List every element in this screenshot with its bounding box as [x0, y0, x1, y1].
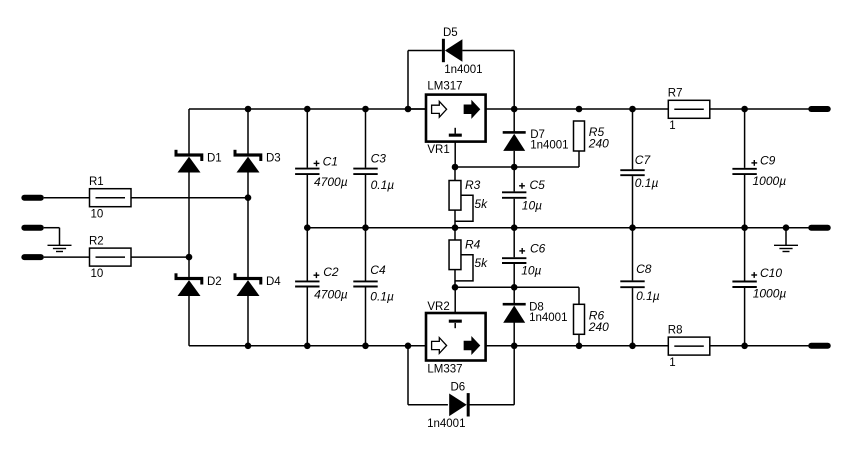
- svg-text:R7: R7: [668, 88, 683, 100]
- svg-text:R4: R4: [465, 238, 481, 252]
- svg-text:D5: D5: [443, 27, 458, 39]
- svg-text:VR2: VR2: [427, 301, 449, 313]
- svg-text:D4: D4: [266, 276, 281, 288]
- svg-text:1n4001: 1n4001: [444, 64, 482, 76]
- svg-text:240: 240: [588, 137, 609, 151]
- svg-text:C4: C4: [370, 263, 386, 277]
- svg-text:LM337: LM337: [427, 364, 462, 376]
- svg-text:0.1µ: 0.1µ: [370, 289, 394, 303]
- svg-text:C7: C7: [635, 153, 652, 167]
- svg-text:C5: C5: [530, 178, 546, 192]
- svg-text:5k: 5k: [474, 197, 488, 211]
- svg-text:0.1µ: 0.1µ: [371, 178, 395, 192]
- svg-text:10µ: 10µ: [522, 198, 542, 212]
- svg-text:D6: D6: [451, 382, 466, 394]
- svg-text:C2: C2: [323, 265, 339, 279]
- svg-text:R8: R8: [668, 325, 683, 337]
- svg-text:R3: R3: [465, 178, 481, 192]
- svg-text:LM317: LM317: [427, 81, 462, 93]
- svg-text:VR1: VR1: [427, 144, 449, 156]
- svg-text:10: 10: [91, 209, 104, 221]
- svg-text:C3: C3: [371, 152, 387, 166]
- svg-text:R2: R2: [89, 236, 104, 248]
- svg-text:C1: C1: [323, 155, 338, 169]
- svg-text:1: 1: [669, 120, 675, 132]
- svg-text:1n4001: 1n4001: [529, 312, 567, 324]
- svg-text:C8: C8: [636, 262, 652, 276]
- svg-text:C9: C9: [760, 154, 776, 168]
- svg-text:C10: C10: [760, 266, 782, 280]
- svg-text:240: 240: [588, 320, 609, 334]
- svg-text:1: 1: [669, 357, 675, 369]
- svg-text:1n4001: 1n4001: [530, 140, 568, 152]
- svg-text:D2: D2: [207, 276, 222, 288]
- svg-text:0.1µ: 0.1µ: [636, 289, 660, 303]
- svg-text:10: 10: [91, 268, 104, 280]
- svg-text:0.1µ: 0.1µ: [635, 176, 659, 190]
- svg-text:D3: D3: [266, 153, 281, 165]
- svg-text:R1: R1: [89, 176, 104, 188]
- svg-text:D1: D1: [207, 153, 222, 165]
- svg-text:1n4001: 1n4001: [427, 418, 465, 430]
- svg-text:10µ: 10µ: [521, 263, 541, 277]
- svg-text:4700µ: 4700µ: [314, 287, 348, 301]
- svg-text:4700µ: 4700µ: [314, 175, 348, 189]
- svg-text:1000µ: 1000µ: [753, 286, 787, 300]
- svg-text:1000µ: 1000µ: [753, 174, 787, 188]
- svg-text:C6: C6: [530, 242, 546, 256]
- svg-text:5k: 5k: [474, 256, 488, 270]
